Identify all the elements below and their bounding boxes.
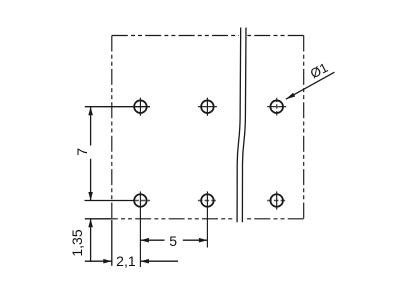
dimension line 2,1 with outside arrows <box>85 259 178 264</box>
dimension text 7 <box>74 148 90 156</box>
break line left <box>237 28 241 223</box>
extension line below rectangle left edge for 2,1 <box>111 220 113 266</box>
part outline right edge (phantom line) <box>303 36 305 219</box>
svg-text:2,1: 2,1 <box>116 253 136 269</box>
dimension text diameter 1 <box>308 60 330 81</box>
dimension text 1,35 <box>69 229 85 256</box>
dimension line 7 vertical with arrows <box>88 107 93 201</box>
hole H3 top-right circle <box>270 100 283 113</box>
hole H4 bottom-left crosshair vertical with extension for dimensions <box>139 191 141 267</box>
hole H6 bottom-right circle <box>270 194 283 207</box>
hole H1 top-left crosshair vertical <box>139 98 141 116</box>
hole H1 top-left circle <box>134 100 147 113</box>
hole H3 top-right crosshair <box>267 98 286 116</box>
dimension text 5 <box>169 233 177 249</box>
hole H2 top-middle circle <box>201 100 214 113</box>
hole H6 bottom-right crosshair <box>267 191 286 209</box>
dimension line 5 with arrows <box>140 238 207 243</box>
extension line through top-left hole row <box>85 106 150 108</box>
break line right <box>242 28 246 223</box>
part outline left edge (phantom line) <box>111 36 113 219</box>
svg-text:1,35: 1,35 <box>69 229 85 256</box>
leader line for diameter callout <box>286 72 335 99</box>
dimension text 2,1 <box>116 253 136 269</box>
part outline bottom edge left segment (phantom line) <box>112 218 236 220</box>
svg-text:7: 7 <box>74 148 90 156</box>
part outline top edge left segment (phantom line) <box>112 35 239 37</box>
extension line at bottom edge for 1,35 <box>85 218 112 220</box>
svg-text:5: 5 <box>169 233 177 249</box>
hole H5 bottom-middle crosshair with extension for dimension 5 <box>198 191 217 247</box>
dimension line 1,35 with outside arrow and tail <box>88 219 93 262</box>
extension line through bottom-left hole row <box>85 200 151 202</box>
part outline bottom edge right segment (phantom line) <box>244 218 304 220</box>
hole H2 top-middle crosshair <box>198 98 217 116</box>
part outline top edge right segment (phantom line) <box>247 35 303 37</box>
hole H5 bottom-middle circle <box>201 194 214 207</box>
hole H4 bottom-left circle <box>134 194 147 207</box>
